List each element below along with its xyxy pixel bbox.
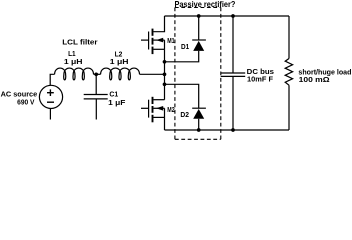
label C1 value [108, 90, 126, 107]
svg-text:1 μH: 1 μH [64, 57, 83, 66]
wire: phase to D2 cathode [165, 84, 199, 108]
capacitor DC bus [221, 73, 246, 76]
wire: load top lead [288, 16, 290, 59]
svg-text:D1: D1 [181, 42, 190, 51]
dashed boundary box [175, 8, 221, 140]
svg-text:D2: D2 [180, 110, 189, 119]
transistor M1 [141, 16, 165, 54]
svg-text:M1: M1 [167, 36, 175, 45]
wire: DC bus bottom lead [232, 76, 234, 130]
svg-text:100 mΩ: 100 mΩ [299, 75, 330, 84]
wire: phase to D1 anode [165, 51, 199, 62]
wire: node A to L2 [96, 73, 100, 75]
wire: C1 bottom lead [95, 99, 97, 120]
wire: node A down to C1 [95, 74, 97, 94]
wire: positive DC rail [165, 15, 290, 17]
node: phase junction dots [163, 60, 167, 86]
wire: negative DC rail [165, 129, 290, 131]
diode D1 [192, 16, 206, 51]
wire: L1 to node A [94, 73, 97, 75]
transistor M2 [141, 97, 165, 123]
label DC bus value [247, 67, 274, 83]
svg-text:1 μF: 1 μF [108, 98, 126, 107]
svg-text:10mF F: 10mF F [247, 74, 273, 83]
inductor L1 [55, 68, 94, 80]
label L1 value [64, 49, 83, 66]
wire: L2 to phase node [140, 73, 165, 75]
label AC source 690 V [1, 89, 38, 106]
svg-text:M2: M2 [167, 105, 174, 114]
node A junction dot [94, 72, 98, 76]
wire: source bottom lead [49, 109, 51, 120]
wire: M2 source to negative rail [164, 117, 166, 130]
node: D1 top junction dot [197, 14, 201, 18]
wire: phase node vertical [164, 49, 166, 99]
capacitor C1 [84, 95, 108, 99]
svg-text:1 μH: 1 μH [110, 57, 129, 66]
wire: source top lead to L1 [50, 74, 54, 85]
wire: DC bus top lead [232, 16, 234, 73]
label L2 value [110, 49, 129, 66]
AC source V1 [39, 85, 62, 108]
node: DC bus top junction dot [231, 14, 235, 18]
node: D2 bottom junction dot [197, 128, 201, 132]
wire: load bottom lead [288, 85, 290, 130]
resistor load [285, 59, 292, 86]
label load value [298, 68, 351, 84]
diode D2 [192, 108, 206, 130]
node: DC bus bottom junction dot [231, 128, 235, 132]
svg-text:690 V: 690 V [17, 98, 35, 107]
svg-text:LCL filter: LCL filter [62, 38, 97, 47]
inductor L2 [101, 68, 140, 80]
